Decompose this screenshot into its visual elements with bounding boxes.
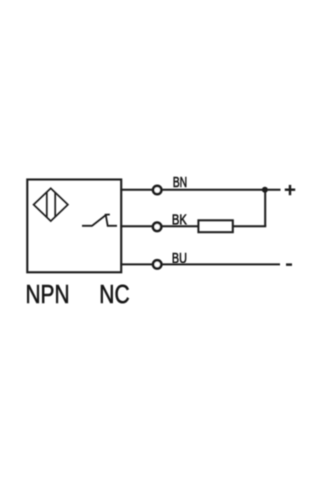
svg-text:NPN: NPN: [26, 281, 70, 309]
svg-text:NC: NC: [99, 281, 129, 309]
junction dot on BN line: [262, 187, 268, 193]
terminal circle BK: [153, 223, 161, 231]
inductive proximity sensor symbol (diamond with band): [34, 188, 68, 221]
wire BK (black) segment from box to resistor: [121, 225, 199, 227]
wire BU (blue) horizontal: [121, 263, 280, 265]
supply + symbol: [285, 185, 295, 195]
terminal circle BU: [153, 260, 161, 268]
wire BN (brown) horizontal: [121, 189, 281, 191]
supply - symbol: [286, 263, 292, 265]
wire BK segment from resistor to junction column: [233, 225, 266, 227]
NC switch contact: [82, 215, 117, 226]
resistor R (load): [198, 220, 232, 232]
terminal circle BN: [153, 186, 161, 194]
sensor body box: [27, 180, 121, 273]
wire vertical from BK up to BN junction: [264, 190, 266, 227]
svg-text:BN: BN: [173, 174, 188, 191]
svg-text:BU: BU: [172, 250, 187, 267]
svg-text:BK: BK: [172, 211, 187, 228]
